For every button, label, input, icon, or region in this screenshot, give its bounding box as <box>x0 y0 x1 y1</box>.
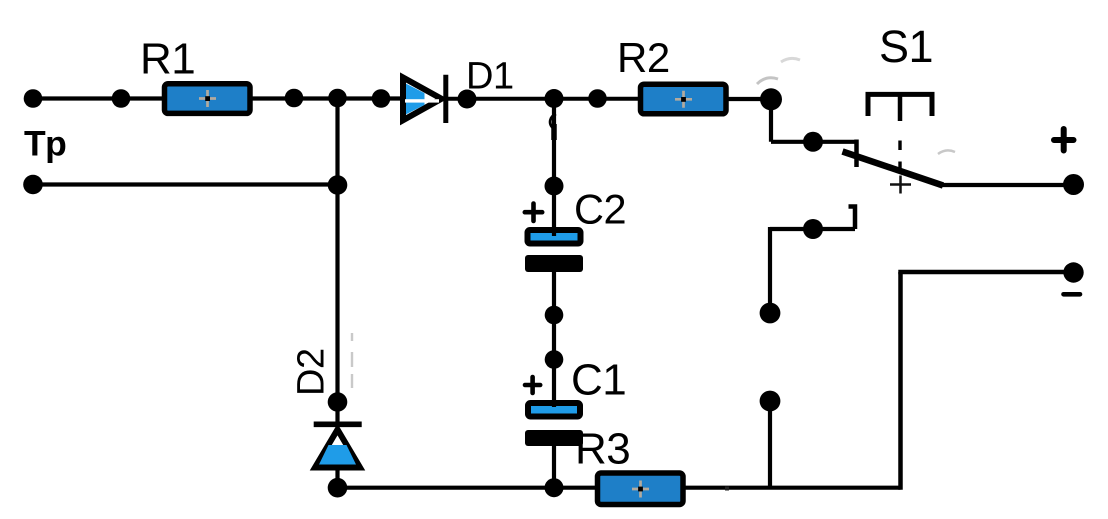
wire R2 right to corner <box>727 97 771 101</box>
wire stub down to bottom rail <box>768 401 772 488</box>
plus terminal label <box>1054 129 1074 151</box>
D1 cathode bar <box>443 75 448 123</box>
upper contact stub <box>854 140 859 168</box>
junction at D2 cathode <box>328 392 348 412</box>
switch lower contact dot <box>803 219 823 239</box>
capacitor C2 plus mark <box>525 204 542 222</box>
node Tp upper terminal <box>24 89 43 108</box>
junction below C2 <box>545 306 564 325</box>
node C2 branch tap <box>545 89 564 108</box>
wire top rail Tp to R1 <box>33 96 164 100</box>
faint artifact above R2 right dot <box>757 78 778 84</box>
capacitor C1 top plate <box>528 403 580 417</box>
junction Tp lower wire to bus <box>328 175 348 195</box>
wire into C1 top plate <box>552 359 556 407</box>
crosshair R1 <box>199 90 216 107</box>
junction right of R1 <box>285 89 304 108</box>
crosshair R3 <box>632 481 649 498</box>
junction right of R2 <box>760 88 782 110</box>
svg-text:D1: D1 <box>466 56 514 98</box>
svg-text:C1: C1 <box>571 356 626 405</box>
junction above C2 <box>545 177 564 196</box>
junction left of R2 <box>588 89 607 108</box>
wire corner down to switch level <box>769 99 773 142</box>
capacitor C2 bottom plate <box>525 255 583 272</box>
svg-text:R1: R1 <box>140 35 195 84</box>
vertical bus from top rail to D2 <box>335 99 339 425</box>
Tp lower wire <box>33 182 338 186</box>
junction top of vertical bus <box>328 89 347 108</box>
junction at D1 cathode <box>458 90 477 109</box>
faint artifact near blade end <box>938 150 955 154</box>
stub dot to bottom rail <box>760 391 781 412</box>
node minus output terminal <box>1063 262 1083 282</box>
diode D1 <box>403 78 442 121</box>
lower contact stub <box>813 227 855 231</box>
wire lower contact left <box>770 227 813 231</box>
wire C branch top <box>552 99 556 187</box>
wire to minus terminal <box>898 270 1073 275</box>
S1 plus mark <box>890 176 911 194</box>
wire lower contact down to dead end <box>768 227 772 313</box>
capacitor C1 bottom plate <box>525 430 583 446</box>
svg-text:R2: R2 <box>617 34 670 81</box>
svg-text:D2: D2 <box>291 348 333 396</box>
crosshair R2 <box>675 91 692 108</box>
resistor R1 <box>165 84 251 114</box>
bottom rail left of R3 <box>338 486 599 490</box>
wire R1 to D1 anode <box>251 96 404 100</box>
junction above C1 <box>545 350 564 369</box>
junction at D2 anode on rail <box>328 478 348 498</box>
diode D2 cathode bar <box>314 421 362 427</box>
wire D2 anode to bottom rail <box>335 466 339 488</box>
speck on bottom rail <box>725 487 729 491</box>
wire to upper switch contact <box>771 140 855 144</box>
svg-text:R3: R3 <box>575 425 630 474</box>
wire into C2 top plate <box>552 186 556 236</box>
bottom rail right of R3 <box>683 486 901 490</box>
diode D2 <box>315 430 360 468</box>
resistor R2 <box>641 84 727 114</box>
node Tp lower terminal <box>23 175 43 195</box>
resistor R3 <box>598 473 684 505</box>
svg-text:S1: S1 <box>879 21 933 72</box>
junction C1 branch on rail <box>545 478 564 497</box>
capacitor C1 plus mark <box>525 377 540 393</box>
wire blade to plus terminal <box>938 183 1073 187</box>
lower contact hook <box>849 207 856 230</box>
svg-text:Tp: Tp <box>24 124 66 164</box>
junction on top rail <box>112 89 131 108</box>
wire between dots C2-C1 <box>552 315 556 359</box>
S1 dashed actuator line <box>898 141 901 175</box>
dead-end dot of lower throw <box>760 303 781 324</box>
svg-text:C2: C2 <box>574 186 626 233</box>
minus terminal label <box>1064 292 1081 297</box>
junction at D1 anode <box>372 89 391 108</box>
squiggle mark on wire <box>550 114 556 128</box>
switch upper contact dot <box>803 132 823 152</box>
switch S1 bracket <box>868 94 932 116</box>
wire C2 bottom plate to dot <box>552 272 556 315</box>
wire C1 bottom plate to bottom rail <box>552 446 556 488</box>
capacitor C2 top plate <box>528 230 581 244</box>
node plus output terminal <box>1063 174 1084 195</box>
switch blade S1 <box>843 152 944 186</box>
wire up to minus level <box>898 272 903 490</box>
wire D1 cathode to R2 <box>446 97 640 101</box>
artifact gray dashes near D2 <box>351 333 353 388</box>
